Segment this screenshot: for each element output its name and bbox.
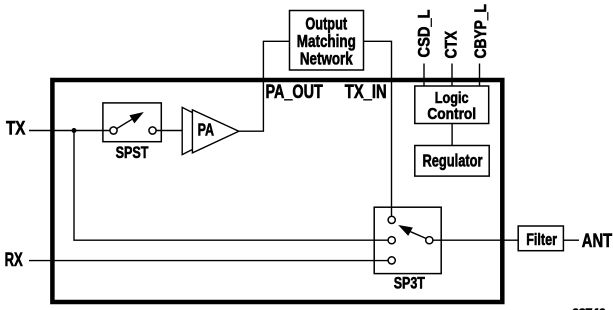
svg-text:PA: PA [198, 119, 215, 139]
block Filter [518, 226, 563, 251]
SP3T pole contact [426, 237, 433, 244]
svg-text:CTX: CTX [441, 30, 460, 58]
wire SP3T pole to Filter [433, 239, 518, 241]
svg-text:TX: TX [6, 119, 26, 140]
wire TX_IN net: matching network to SP3T input [364, 41, 392, 216]
svg-text:RX: RX [5, 250, 23, 271]
block Output Matching Network [290, 11, 364, 71]
module outline U1 (thick box) [52, 80, 502, 302]
SP3T arm with arrowhead [398, 225, 426, 238]
amplifier PA (dual triangle) [182, 107, 239, 154]
wire SPST to PA [156, 130, 182, 132]
wire TX lead [29, 130, 110, 132]
switch SP3T box [374, 207, 441, 273]
label Output Matching Network [297, 13, 356, 68]
pin CBYP_L [471, 4, 490, 86]
label Logic Control [427, 90, 476, 123]
SPST pole contact [110, 127, 117, 134]
SP3T throw contact TX [388, 216, 395, 223]
wire PA output up to matching network [239, 41, 290, 131]
svg-text:Control: Control [427, 106, 476, 123]
wire TX junction down and right to SP3T pole [74, 131, 388, 241]
switch SPST box [103, 103, 161, 142]
pin CTX [441, 30, 460, 86]
wire Filter to ANT [563, 239, 579, 241]
svg-text:SPST: SPST [116, 143, 149, 162]
SPST throw contact [149, 127, 156, 134]
svg-text:CBYP_L: CBYP_L [471, 4, 490, 59]
SPST arm with arrowhead [117, 112, 144, 129]
SP3T throw contact mid [388, 237, 395, 244]
svg-text:Network: Network [300, 49, 353, 69]
svg-text:CSD_L: CSD_L [415, 10, 434, 58]
block Regulator [415, 146, 489, 177]
svg-text:Filter: Filter [526, 230, 557, 249]
SP3T throw contact RX [388, 257, 395, 264]
svg-text:SP3T: SP3T [394, 274, 426, 293]
block Logic Control [415, 86, 489, 124]
svg-text:TX_IN: TX_IN [345, 82, 387, 103]
svg-text:Logic: Logic [435, 90, 469, 107]
node TX junction [72, 128, 77, 133]
wire Logic Control to Regulator [451, 124, 453, 146]
svg-text:Regulator: Regulator [423, 150, 483, 170]
svg-text:ANT: ANT [582, 231, 613, 252]
svg-text:PA_OUT: PA_OUT [266, 82, 324, 103]
wire RX lead to SP3T [29, 260, 388, 262]
pin CSD_L [415, 10, 434, 87]
